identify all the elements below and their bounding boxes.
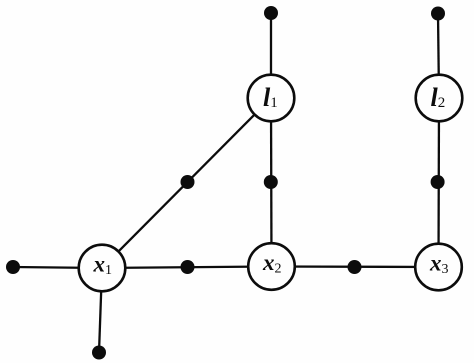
wire: x1 to x2 (horizontal): [102, 267, 272, 269]
factor dot below x1: [92, 346, 106, 360]
wire: x1 to l1 (diagonal): [102, 98, 271, 268]
wire: prior factor to l2 (vertical): [438, 14, 439, 99]
node x2 (pose circle): [248, 243, 295, 290]
factor dot on x1-l1 edge: [181, 175, 195, 189]
factor dot on l1-x2 edge: [264, 175, 278, 189]
factor dot on l2-x3 edge: [431, 175, 445, 189]
wire: l1 to x2 (vertical): [270, 98, 273, 267]
node x3 (pose circle): [415, 244, 462, 291]
factor dot on x1-x2 edge: [181, 260, 195, 274]
wire: prior factor to l1 (vertical): [270, 13, 272, 98]
wire: left prior factor to x1 (horizontal): [13, 267, 102, 268]
wire: l2 to x3 (vertical): [437, 98, 440, 267]
factor dot on x2-x3 edge: [348, 260, 362, 274]
wire: x1 to bottom factor: [99, 268, 102, 353]
factor dot left of x1: [6, 260, 20, 274]
node x1 (pose circle): [79, 245, 126, 292]
factor dot above l1: [264, 6, 278, 20]
wire: x2 to x3 (horizontal): [272, 265, 439, 268]
node l1 (landmark circle): [248, 75, 295, 122]
node l2 (landmark circle): [416, 75, 463, 122]
factor dot above l2: [431, 7, 445, 21]
